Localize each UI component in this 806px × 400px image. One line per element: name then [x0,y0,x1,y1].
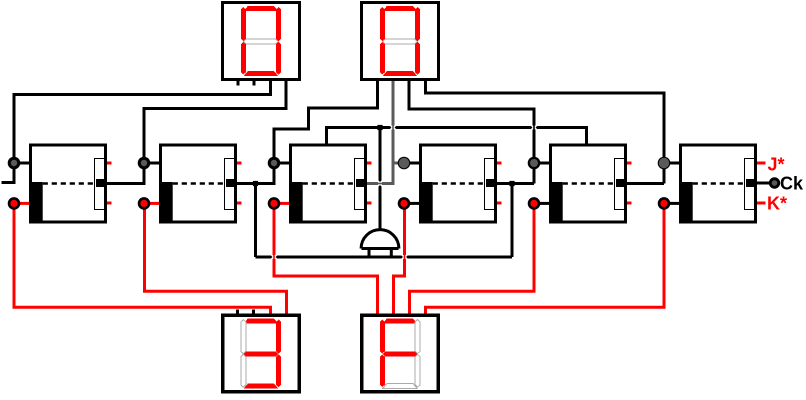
svg-text:J*: J* [768,155,785,175]
svg-text:K*: K* [767,194,787,214]
svg-text:Ck: Ck [780,174,804,194]
